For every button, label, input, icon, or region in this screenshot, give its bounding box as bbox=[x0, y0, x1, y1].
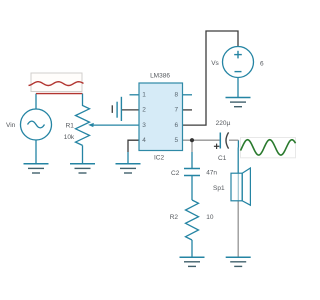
svg-text:R1: R1 bbox=[66, 123, 75, 130]
svg-text:6: 6 bbox=[260, 60, 264, 67]
svg-text:Vin: Vin bbox=[6, 122, 16, 129]
svg-text:7: 7 bbox=[175, 107, 179, 114]
svg-text:C2: C2 bbox=[171, 170, 180, 177]
svg-text:3: 3 bbox=[142, 122, 146, 129]
svg-text:2: 2 bbox=[142, 107, 146, 114]
svg-text:10k: 10k bbox=[64, 134, 75, 141]
svg-text:LM386: LM386 bbox=[150, 72, 170, 79]
svg-text:IC2: IC2 bbox=[154, 155, 165, 162]
svg-text:6: 6 bbox=[175, 122, 179, 129]
svg-text:C1: C1 bbox=[218, 155, 227, 162]
svg-text:R2: R2 bbox=[170, 214, 179, 221]
svg-text:220µ: 220µ bbox=[216, 120, 231, 127]
svg-text:8: 8 bbox=[175, 92, 179, 99]
svg-text:10: 10 bbox=[206, 214, 214, 221]
svg-text:4: 4 bbox=[142, 137, 146, 144]
svg-text:Sp1: Sp1 bbox=[213, 185, 225, 192]
svg-text:47n: 47n bbox=[206, 170, 217, 177]
svg-text:1: 1 bbox=[142, 92, 146, 99]
svg-text:5: 5 bbox=[175, 137, 179, 144]
svg-text:Vs: Vs bbox=[211, 60, 219, 67]
